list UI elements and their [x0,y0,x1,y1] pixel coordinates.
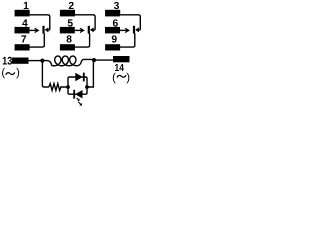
svg-text:7: 7 [21,35,27,46]
LED emission arrow 2 [78,102,82,106]
pole group 3-6-9 [105,1,140,50]
svg-text:13: 13 [2,56,12,68]
wire node B to terminal 14 [94,59,113,61]
diode D1 (protection diode, cathode right) [75,73,83,81]
wire from terminal 3 to movable contact [120,15,140,30]
terminal 13 pad [12,58,29,64]
svg-text:9: 9 [111,35,117,46]
svg-text:8: 8 [66,35,72,46]
svg-text:(: ( [112,72,116,84]
relay coil [42,56,92,66]
wire from contact bar to terminal 9 [120,33,135,47]
wire from contact bar to terminal 7 [30,33,45,47]
diode pair frame [68,62,93,94]
movable contact arrowhead [90,27,94,32]
pole group 2-5-8 [60,1,95,50]
svg-text:14: 14 [115,63,125,74]
AC marking (~) right : tilde wave [117,75,126,77]
movable contact arrowhead [45,27,49,32]
wire terminal 13 to node A [28,60,42,62]
terminal 8 pad [60,44,75,50]
fixed contact bar [133,26,135,34]
svg-text:(: ( [1,67,5,79]
terminal 6 pad [105,27,120,34]
terminal 7 pad [15,44,30,50]
AC marking (~) left : tilde wave [6,72,15,74]
node C junction (diode pair left) [66,85,70,89]
fixed contact bar [42,26,44,34]
wire node A down to resistor [42,61,49,87]
movable contact arrowhead [135,27,139,32]
terminal 9 pad [105,44,120,50]
terminal 2 pad [60,10,75,17]
movable-side arrow from terminal 4 [30,29,39,31]
terminal 14 pad [113,56,130,62]
movable-side arrow from terminal 5 [75,29,84,31]
svg-text:): ) [16,67,20,79]
node D junction (diode pair right) [85,85,89,89]
wire from contact bar to terminal 8 [75,33,90,47]
pole group 1-4-7 [15,1,50,50]
terminal 1 pad [15,10,30,17]
terminal 5 pad [60,27,75,34]
movable-side arrow from terminal 6 [120,29,129,31]
node B junction [92,58,96,62]
resistor R [49,84,66,91]
terminal 3 pad [105,10,120,17]
wire from terminal 2 to movable contact [75,15,95,30]
terminal 4 pad [15,27,30,34]
LED emission arrow 1 [77,98,80,101]
svg-text:): ) [126,72,130,84]
LED D2 (indicator, cathode left) [75,90,83,98]
fixed contact bar [88,26,90,34]
wire from terminal 1 to movable contact [30,15,50,30]
node A junction [40,59,44,63]
